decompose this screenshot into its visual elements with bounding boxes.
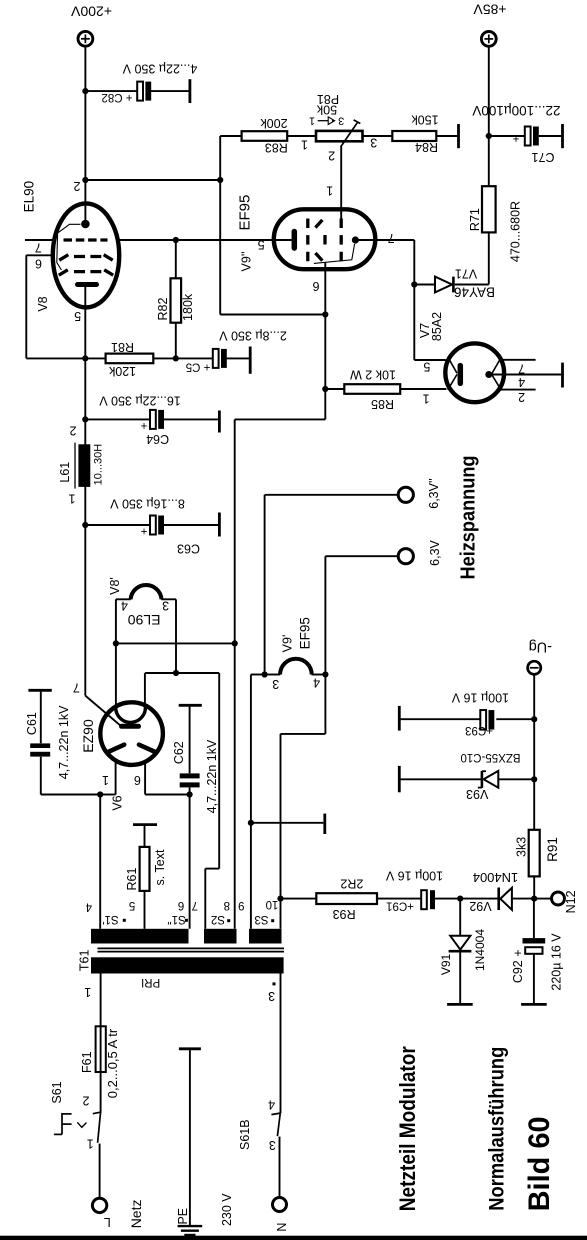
svg-text:F61: F61: [80, 1051, 94, 1073]
choke L61 core line: [74, 443, 76, 489]
wire R61 bottom to S1 pin 5: [144, 891, 146, 929]
EZ90 cathode bar: [122, 724, 139, 729]
svg-text:1: 1: [423, 392, 430, 406]
resistor R83: [242, 131, 288, 141]
svg-text:R71: R71: [468, 208, 482, 231]
node EF95 screen: [322, 311, 328, 317]
wire EF95 anode out: [355, 239, 414, 241]
capacitor C92: [523, 899, 546, 1004]
wire grid1 stub left: [25, 239, 54, 241]
capacitor C93: [480, 710, 494, 730]
svg-text:EF95: EF95: [237, 195, 254, 231]
wire ground to V93: [401, 778, 482, 780]
svg-text:2...8µ 350 V: 2...8µ 350 V: [219, 329, 287, 343]
svg-text:3: 3: [162, 598, 169, 612]
wire anode line to V7: [414, 359, 446, 361]
switch S61: [54, 1112, 101, 1143]
ground bar V7: [561, 363, 564, 388]
wire riser up to R83: [219, 136, 221, 180]
node EL90 anode rail: [82, 177, 88, 183]
ground bar C93: [398, 706, 401, 731]
EL90 grid1 dashes: [64, 238, 108, 241]
wire C62 node down to S1 pin 6: [189, 795, 191, 929]
wire heater rail A: [116, 642, 235, 644]
resistor R84: [392, 131, 436, 141]
svg-text:7: 7: [73, 681, 80, 695]
svg-text:R91: R91: [545, 837, 560, 862]
svg-text:+C93: +C93: [465, 724, 493, 736]
svg-text:+ C82: + C82: [101, 91, 132, 103]
EL90 grid3 dashes: [59, 270, 113, 275]
wire C82 to ground: [151, 90, 189, 92]
resistor R93: [316, 893, 377, 904]
svg-text:6: 6: [35, 256, 42, 270]
svg-text:1: 1: [87, 1137, 94, 1151]
wire to C71: [489, 135, 525, 137]
svg-text:V92: V92: [469, 899, 491, 913]
wire pin9 to ground bar: [251, 822, 324, 824]
svg-text:PE: PE: [176, 1208, 190, 1225]
svg-text:10: 10: [266, 898, 279, 910]
wire V7 pin 4 to ground: [489, 374, 561, 376]
svg-text:2: 2: [69, 423, 76, 437]
wire heater rail B: [145, 672, 219, 674]
svg-text:470...680R: 470...680R: [508, 201, 522, 262]
annotation wiper direction: [309, 114, 344, 126]
wire 6.3V rail: [325, 555, 398, 557]
wire C64 to ground: [164, 418, 218, 420]
transformer primary winding: [91, 957, 284, 973]
svg-text:EL90: EL90: [128, 612, 161, 628]
svg-text:N: N: [275, 1223, 289, 1232]
wire to V71: [414, 284, 435, 286]
svg-text:120k: 120k: [108, 364, 136, 378]
wire primary pin 1 to fuse: [100, 974, 102, 1027]
svg-text:R81: R81: [111, 340, 134, 354]
wire EF95 node jog down: [324, 389, 326, 419]
diode V91 1N4004: [449, 936, 472, 951]
svg-text:R93: R93: [333, 907, 356, 921]
node R83 riser: [217, 177, 223, 183]
EL90 anode dot: [81, 220, 90, 229]
wire R91 bottom: [533, 876, 535, 898]
svg-text:Netzteil Modulator: Netzteil Modulator: [395, 1046, 420, 1211]
wire fuse to switch S61: [100, 1072, 102, 1113]
wire EZ90 pin 6: [145, 761, 190, 795]
wire pin10 to R93: [281, 898, 317, 900]
wire C71 to ground: [539, 135, 562, 137]
svg-text:22...100µ100V: 22...100µ100V: [472, 103, 560, 118]
polarity dot S1': [123, 919, 126, 922]
svg-text:5: 5: [129, 899, 135, 911]
terminal +200V: [78, 31, 93, 46]
tube V7 85A2 envelope: [445, 343, 504, 402]
EF95 anode dot: [352, 236, 359, 243]
svg-text:3: 3: [268, 989, 275, 1003]
svg-text:+: +: [512, 132, 519, 144]
wire to C82: [85, 90, 137, 92]
wire R61 top: [144, 826, 146, 847]
svg-text:C61: C61: [25, 712, 39, 735]
wire across to EF95 bottom pin: [220, 314, 325, 316]
zener V93 BZX55-C10: [478, 771, 499, 788]
svg-text:R82: R82: [156, 297, 170, 320]
svg-text:T61: T61: [78, 949, 92, 971]
tube V9'' EF95 envelope: [274, 209, 376, 269]
ground bar C61: [28, 689, 51, 692]
wire anode line down: [413, 240, 415, 360]
svg-text:S61B: S61B: [238, 1119, 252, 1150]
svg-text:V8': V8': [108, 577, 122, 595]
svg-text:230 V: 230 V: [220, 1193, 234, 1226]
polarity dot pin 3: [273, 982, 276, 985]
ground bar PE top: [179, 1047, 201, 1050]
svg-text:+: +: [140, 419, 147, 431]
svg-text:10k 2 W: 10k 2 W: [350, 368, 396, 382]
svg-text:+200V: +200V: [70, 3, 112, 19]
EL90 grid2 dashes: [59, 255, 112, 261]
svg-text:9: 9: [238, 899, 244, 911]
wire V7 pin 7 stub: [501, 359, 536, 361]
wire R84 to ground: [436, 135, 457, 137]
svg-text:3: 3: [338, 115, 344, 127]
svg-text:6: 6: [178, 899, 184, 911]
wire R81 right lead: [153, 357, 176, 359]
node R81 right: [173, 355, 179, 361]
svg-text:+85V: +85V: [473, 2, 507, 18]
ground bar C92: [521, 1003, 547, 1006]
EL90 internal connection: [57, 224, 81, 270]
capacitor C63: [150, 516, 164, 535]
resistor R82: [171, 278, 182, 322]
svg-text:6,3V: 6,3V: [428, 539, 442, 565]
svg-text:0,2...0,5 A tr: 0,2...0,5 A tr: [105, 1028, 120, 1098]
svg-text:220µ 16 V: 220µ 16 V: [550, 933, 564, 991]
svg-text:C71: C71: [531, 150, 554, 164]
wire to C63: [85, 524, 150, 526]
wire to C64: [85, 418, 150, 420]
svg-text:6: 6: [134, 773, 141, 787]
node R82 top: [173, 237, 179, 243]
terminal N12: [552, 892, 565, 905]
wire node to V92: [460, 898, 499, 900]
wire node down to S1 pin 4: [99, 795, 101, 929]
svg-text:6: 6: [312, 279, 319, 293]
wire S61 to Netz terminal: [99, 1144, 101, 1199]
node V9' pin 3: [262, 671, 268, 677]
switch S61B: [271, 1113, 281, 1136]
svg-text:Heizspannung: Heizspannung: [457, 456, 480, 580]
wire EZ90 pin3 drop: [144, 673, 146, 706]
svg-text:BZX55-C10: BZX55-C10: [460, 751, 520, 763]
svg-text:3: 3: [272, 677, 279, 691]
capacitor C71: [525, 127, 539, 146]
diode V71 BAY46: [435, 277, 453, 293]
svg-text:4: 4: [121, 598, 128, 612]
wire V71 to R71 drop: [455, 284, 489, 286]
node C93 tap: [531, 716, 537, 722]
svg-text:EZ90: EZ90: [80, 719, 96, 753]
svg-text:5: 5: [74, 309, 81, 323]
ground bar R61: [133, 823, 157, 826]
svg-text:2: 2: [82, 1093, 89, 1107]
svg-text:50k: 50k: [316, 102, 337, 116]
V7 right chevron: [492, 357, 501, 390]
ground bar heater winding: [323, 814, 326, 834]
svg-text:8...16µ 350 V: 8...16µ 350 V: [110, 497, 185, 511]
svg-text:S1': S1': [102, 913, 118, 925]
wire R83 left lead: [220, 135, 241, 137]
ground bar C63: [218, 513, 221, 537]
wire pin 6 to cathode node: [26, 357, 85, 359]
wire pin 6 down: [25, 255, 27, 358]
svg-text:s. Text: s. Text: [153, 849, 167, 885]
svg-text:150k: 150k: [411, 113, 439, 127]
wire R71 bottom: [488, 232, 490, 284]
node R85 left: [322, 386, 328, 392]
diode V92 1N4004: [499, 888, 512, 911]
svg-text:8: 8: [224, 899, 230, 911]
wire -Ug down to R91: [533, 674, 535, 829]
resistor R61: [140, 847, 150, 891]
svg-text:V9'': V9'': [240, 251, 254, 271]
wire C91 to V91 node: [435, 898, 460, 900]
svg-text:7: 7: [192, 899, 198, 911]
wire C93 to node: [496, 718, 534, 720]
svg-text:Netz: Netz: [128, 1200, 144, 1229]
wire P81 to R84: [363, 135, 393, 137]
svg-text:16...22µ 350 V: 16...22µ 350 V: [99, 394, 181, 408]
svg-text:2: 2: [73, 179, 80, 193]
svg-text:1N4004: 1N4004: [473, 870, 519, 885]
wire R93 to C91: [377, 898, 421, 900]
heater V8' arc: [131, 585, 162, 599]
svg-text:4,7...22n 1kV: 4,7...22n 1kV: [57, 705, 71, 779]
svg-text:200k: 200k: [260, 116, 288, 130]
ground bar V91: [447, 1003, 473, 1006]
terminal N: [273, 1198, 287, 1212]
svg-text:PRI: PRI: [141, 976, 160, 988]
svg-text:5: 5: [423, 360, 430, 374]
svg-text:L: L: [104, 1215, 111, 1229]
svg-text:5: 5: [258, 237, 265, 251]
terminal 6.3V'': [398, 487, 413, 502]
heater V9' arc: [280, 659, 312, 675]
wire 6.3V'' riser: [264, 495, 266, 675]
wire C5 to ground: [226, 357, 249, 359]
node N12: [531, 896, 537, 902]
wire R82 top lead: [175, 240, 177, 278]
svg-text:C62: C62: [172, 741, 186, 764]
node C82 tap: [82, 88, 88, 94]
svg-text:3k3: 3k3: [514, 837, 528, 857]
node heater rail A left: [113, 640, 119, 646]
fuse F61: [96, 1026, 106, 1072]
capacitor C82: [137, 82, 151, 101]
heater V9' leads: [265, 674, 326, 676]
capacitor C62: [180, 707, 200, 795]
choke L61: [78, 444, 90, 487]
node C64 tap: [82, 416, 88, 422]
ground bar C71: [561, 124, 564, 148]
EF95 internal connection: [314, 244, 355, 264]
EZ90 anode bar left: [109, 745, 124, 752]
wire EF95 bottom pin: [324, 262, 326, 389]
polarity dot S1'': [185, 919, 188, 922]
svg-text:1: 1: [68, 491, 75, 505]
wire C63 to ground: [164, 524, 218, 526]
terminal 6.3V: [398, 549, 413, 564]
svg-text:1: 1: [301, 138, 308, 152]
wire to N12 terminal: [534, 898, 551, 900]
svg-text:100µ 16 V: 100µ 16 V: [451, 690, 509, 704]
wire S2 pin7 jog: [205, 868, 219, 870]
node S3 pin 10: [277, 896, 283, 902]
wire node to C5: [176, 357, 213, 359]
svg-text:4: 4: [518, 375, 525, 389]
wire riser down: [219, 180, 221, 315]
node C63 tap: [82, 522, 88, 528]
EF95 grid1 dashes: [306, 219, 309, 262]
svg-text:1: 1: [102, 773, 109, 787]
svg-text:S61: S61: [50, 1081, 64, 1103]
svg-text:2: 2: [518, 390, 525, 404]
V7 cathode bar: [458, 366, 464, 384]
svg-text:4...22µ 350 V: 4...22µ 350 V: [122, 62, 197, 76]
capacitor C5: [213, 349, 227, 368]
svg-text:R84: R84: [415, 140, 438, 154]
svg-text:V71: V71: [455, 267, 477, 281]
wire anode rail to R83 riser: [85, 179, 220, 181]
wire R85 left lead: [325, 388, 344, 390]
ground bar C5: [249, 347, 252, 374]
wire pin 6 EL90: [26, 254, 54, 256]
svg-text:2: 2: [328, 148, 335, 162]
tube V8 EL90 envelope: [53, 203, 119, 307]
transformer T61 winding S2: [204, 929, 237, 944]
svg-text:S2: S2: [211, 913, 225, 925]
transformer T61 winding S3: [249, 929, 282, 944]
capacitor C91: [421, 890, 435, 909]
potentiometer P81: [316, 120, 363, 147]
V7 left chevron: [448, 357, 457, 390]
svg-text:1N4004: 1N4004: [473, 929, 487, 971]
wire V9' pin4 drop: [281, 675, 326, 929]
svg-text:10...30H: 10...30H: [93, 444, 105, 486]
node HT left rail: [97, 791, 103, 797]
polarity dot S3: [271, 919, 274, 922]
svg-text:7: 7: [388, 231, 395, 245]
capacitor C64: [150, 410, 164, 429]
svg-text:+C91: +C91: [386, 899, 414, 911]
wire V7 pin 2 stub: [500, 389, 536, 391]
EL90 cathode bar: [78, 282, 97, 287]
wire S2 pin7 lead: [204, 869, 206, 929]
wire primary pin 3 to switch S61B: [280, 974, 282, 1114]
ground bar R84: [457, 124, 460, 148]
node V93 tap: [531, 776, 537, 782]
svg-text:+ C5: + C5: [186, 361, 211, 373]
wire V93 to node: [498, 778, 534, 780]
earth symbol PE: [178, 1226, 203, 1235]
capacitor C61: [30, 692, 50, 795]
node C71 tap: [486, 133, 492, 139]
wire ground to C93: [401, 718, 481, 720]
svg-text:N12: N12: [564, 890, 578, 913]
wire C61 to node: [41, 794, 100, 796]
svg-text:V9': V9': [281, 635, 295, 653]
svg-text:C64: C64: [146, 432, 169, 446]
svg-text:V8: V8: [36, 296, 50, 311]
svg-text:+: +: [140, 525, 147, 537]
wire grid line to EF95: [119, 239, 292, 241]
svg-text:L61: L61: [58, 462, 72, 483]
node cathode junction: [82, 355, 88, 361]
wire EZ90 pin 1: [100, 761, 115, 795]
heater V8' leads: [116, 599, 176, 706]
EZ90 heater arc: [116, 704, 146, 722]
wire main HT down to EZ90: [84, 525, 86, 696]
EF95 grid3 dashes: [340, 219, 343, 262]
polarity dot S2: [227, 919, 230, 922]
ground bar C82: [188, 79, 191, 103]
terminal -Ug: [528, 661, 541, 674]
wire R82 bottom lead: [175, 323, 177, 359]
wire long drop to S2 pin 8: [234, 419, 236, 928]
wire rail B drop: [218, 673, 220, 869]
wire V92 to N12 node: [512, 898, 534, 900]
svg-text:EL90: EL90: [22, 181, 37, 213]
svg-text:Bild 60: Bild 60: [523, 1116, 556, 1211]
node V71 anode: [411, 281, 417, 287]
wire V9' pin3 branch to S3 pin 9: [251, 675, 265, 929]
wire R85 to V7 pin1: [400, 388, 446, 390]
node heater rail B left: [173, 670, 179, 676]
resistor R91: [529, 830, 540, 877]
svg-text:1: 1: [309, 114, 315, 126]
node V9' pin 4: [322, 671, 328, 677]
svg-text:BAY46: BAY46: [454, 284, 495, 299]
svg-text:Normalausführung: Normalausführung: [486, 1047, 509, 1211]
svg-text:C92 +: C92 +: [511, 949, 525, 983]
EZ90 anode bar right: [139, 745, 154, 752]
node V91 tap: [457, 896, 463, 902]
svg-text:V6: V6: [110, 795, 124, 810]
transformer core lines: [98, 948, 285, 951]
wire P81 wiper to EF95 grid: [340, 147, 342, 219]
terminal +85V: [481, 32, 496, 47]
resistor R81: [106, 354, 154, 364]
wire R83 to P81: [287, 135, 316, 137]
wire +200V rail down to EL90 anode: [84, 46, 86, 224]
svg-text:S1'': S1'': [167, 913, 185, 925]
svg-text:7: 7: [518, 361, 525, 375]
EF95 grid2 dashes: [315, 220, 325, 261]
wire diagonal to EZ90 cathode: [85, 696, 121, 727]
wire V91 down: [459, 899, 461, 936]
wire +85V down to R71: [488, 46, 490, 186]
resistor R85: [344, 384, 400, 394]
ground bar V93: [398, 766, 401, 792]
node S3 pin 9 ground tap: [248, 820, 254, 826]
border bottom: [0, 1236, 587, 1240]
svg-text:4: 4: [313, 675, 320, 689]
svg-text:6,3V'': 6,3V'': [427, 478, 441, 509]
svg-text:S3: S3: [254, 913, 268, 925]
transformer T61 winding S1: [91, 929, 189, 944]
svg-text:180k: 180k: [181, 293, 195, 321]
svg-text:2R2: 2R2: [340, 877, 363, 891]
